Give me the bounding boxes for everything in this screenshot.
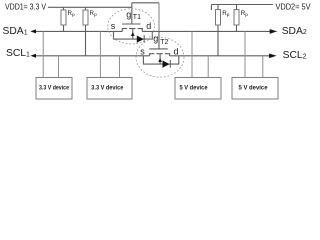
svg-text:Rp: Rp	[241, 10, 248, 18]
svg-text:5 V device: 5 V device	[180, 85, 208, 92]
svg-text:SDA2: SDA2	[282, 26, 307, 37]
svg-text:s: s	[111, 21, 116, 31]
svg-text:VDD2= 5V: VDD2= 5V	[276, 2, 312, 11]
svg-text:s: s	[140, 46, 145, 56]
svg-text:SCL1: SCL1	[6, 48, 30, 59]
svg-text:SDA1: SDA1	[3, 26, 28, 37]
svg-text:Rp: Rp	[222, 10, 229, 18]
svg-text:3.3 V device: 3.3 V device	[91, 85, 123, 92]
svg-text:T2: T2	[160, 39, 168, 46]
svg-text:SCL2: SCL2	[283, 50, 307, 61]
svg-text:d: d	[174, 46, 179, 56]
svg-text:Rp: Rp	[68, 10, 75, 18]
svg-text:VDD1= 3.3 V: VDD1= 3.3 V	[5, 2, 47, 11]
svg-text:d: d	[146, 21, 151, 31]
svg-text:g: g	[153, 33, 158, 43]
svg-text:5 V device: 5 V device	[239, 85, 268, 92]
svg-text:T1: T1	[133, 14, 141, 21]
svg-text:g: g	[126, 10, 131, 20]
svg-text:Rp: Rp	[90, 10, 97, 18]
svg-text:3.3 V device: 3.3 V device	[39, 85, 69, 92]
